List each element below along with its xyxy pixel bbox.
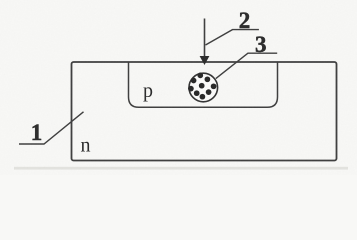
faint scan smudge under figure	[14, 167, 348, 170]
leader line for label 3	[216, 53, 277, 78]
arrow 2 (incident light)	[204, 19, 206, 58]
leader line for label 1	[19, 112, 84, 144]
paper grain overlay	[0, 0, 357, 175]
dot pattern inside contact	[188, 73, 216, 100]
contact circle (element 3)	[189, 73, 218, 102]
leader line for label 2	[206, 30, 259, 45]
n-substrate rectangle	[72, 62, 337, 161]
p-region tub	[129, 62, 278, 107]
